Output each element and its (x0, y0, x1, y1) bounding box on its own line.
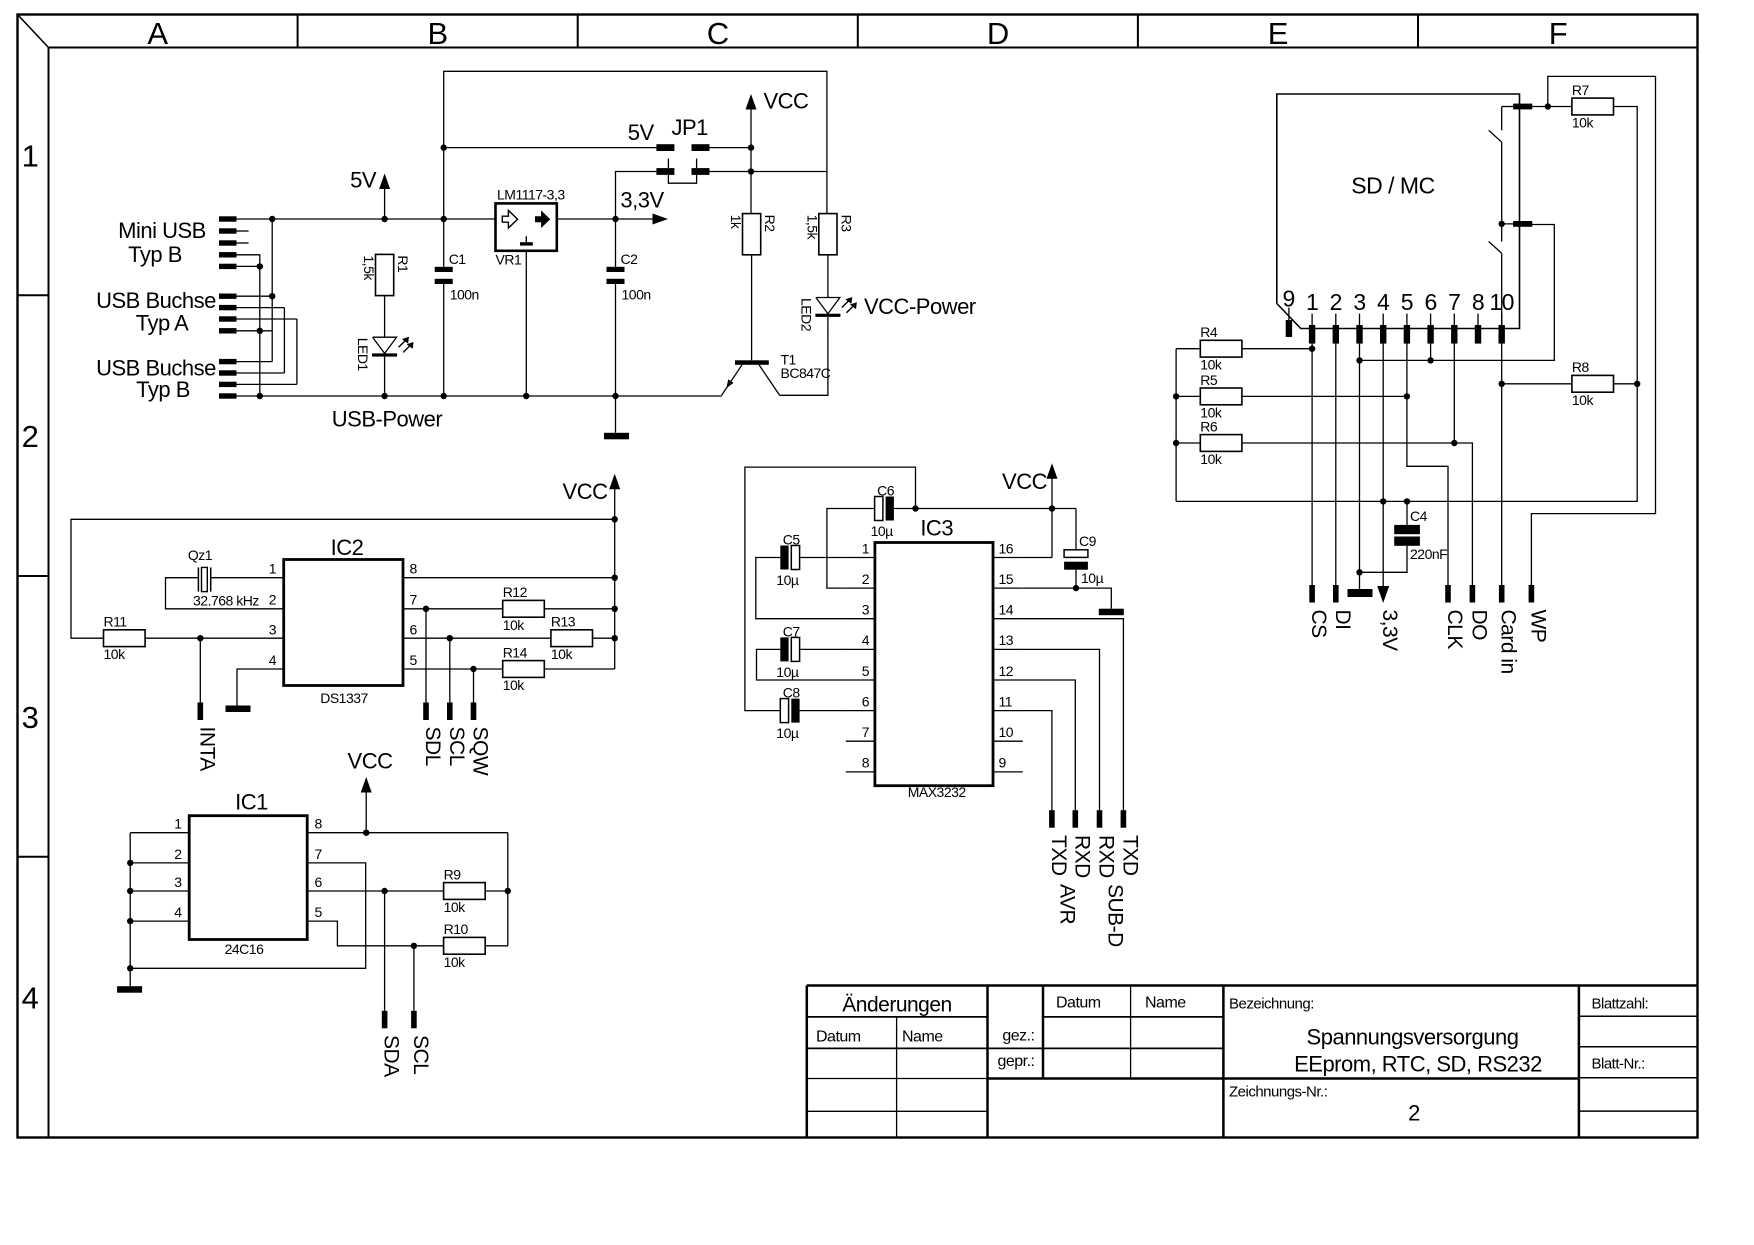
svg-text:100n: 100n (450, 286, 479, 302)
svg-text:Typ A: Typ A (136, 311, 189, 336)
wire IC2 pin4 to gnd (237, 669, 284, 706)
wire crystal to pin2 (166, 578, 284, 609)
wire R4-R6 left bus (1175, 349, 1177, 502)
VCC symbol IC2 (609, 474, 620, 490)
svg-text:R2: R2 (762, 215, 778, 233)
wire IC2 pin8 VCC (403, 577, 615, 579)
svg-text:Name: Name (902, 1029, 943, 1046)
wire SD pin3 gnd (1359, 344, 1361, 590)
wire R13 right (593, 637, 615, 639)
svg-text:5: 5 (862, 663, 870, 679)
svg-text:3: 3 (862, 602, 870, 618)
svg-text:VCC-Power: VCC-Power (864, 294, 976, 319)
wire gnd net pin6 (1360, 225, 1555, 361)
resistor R14 (503, 661, 545, 678)
resistor R5 (1200, 388, 1242, 405)
switch WP blade (1501, 107, 1503, 131)
svg-text:A: A (147, 16, 168, 51)
svg-text:6: 6 (1424, 289, 1436, 315)
svg-text:C2: C2 (621, 251, 639, 267)
svg-text:R7: R7 (1572, 82, 1590, 98)
wire R7 bypass WP (1531, 76, 1655, 585)
wire card-detect to pin10 (1501, 253, 1503, 585)
svg-text:AVR: AVR (1056, 884, 1079, 924)
svg-text:IC1: IC1 (235, 790, 268, 815)
svg-text:LED2: LED2 (798, 298, 814, 332)
svg-text:R11: R11 (104, 614, 128, 630)
net stub DO (1470, 585, 1476, 603)
svg-text:VCC: VCC (764, 89, 810, 114)
supply 5V arrow (379, 174, 390, 190)
wire pad1 to R7 (1532, 106, 1572, 108)
svg-text:7: 7 (1448, 289, 1460, 315)
svg-text:VCC: VCC (563, 479, 609, 504)
wire IC3 pin14 (1023, 619, 1124, 811)
svg-text:10k: 10k (551, 646, 574, 662)
svg-text:BC847C: BC847C (781, 365, 831, 381)
ground symbol SD (1348, 589, 1373, 597)
wire SD pin4 3,3V (1382, 344, 1384, 587)
svg-text:10k: 10k (1200, 451, 1223, 467)
wire R7 right down (1614, 107, 1638, 384)
wire JP1 bottom row (616, 172, 657, 220)
svg-text:C5: C5 (783, 532, 801, 548)
svg-text:C8: C8 (783, 685, 801, 701)
svg-text:Datum: Datum (816, 1029, 861, 1046)
capacitor C1 (435, 267, 453, 272)
svg-text:CS: CS (1307, 610, 1330, 639)
ground symbol IC1 (117, 986, 142, 993)
svg-text:1,5k: 1,5k (361, 255, 377, 281)
svg-text:10µ: 10µ (871, 523, 894, 539)
wire IC3 pin16 vcc (1023, 557, 1052, 559)
svg-text:USB-Power: USB-Power (332, 407, 443, 432)
wire IC1 pin6 (307, 890, 443, 892)
svg-text:Blatt-Nr.:: Blatt-Nr.: (1592, 1056, 1645, 1073)
svg-text:C4: C4 (1410, 508, 1428, 524)
svg-text:10k: 10k (444, 954, 467, 970)
switch CD pad2 (1513, 221, 1532, 227)
VCC symbol main (746, 94, 757, 110)
capacitor C6 wires (827, 509, 875, 589)
svg-text:INTA: INTA (195, 727, 218, 772)
resistor R8 row (1502, 383, 1572, 385)
svg-text:10µ: 10µ (776, 664, 799, 680)
wire R12 right (544, 608, 614, 610)
svg-text:RXD: RXD (1095, 835, 1118, 878)
wire VR1 output 3,3V rail (557, 218, 653, 220)
svg-text:1: 1 (862, 540, 870, 556)
transistor T1 BC847C (735, 360, 769, 365)
capacitor C8 (780, 699, 788, 723)
resistor R4 row (1176, 348, 1200, 350)
net arrow 3,3V (653, 214, 669, 225)
wire GND rail (237, 395, 722, 397)
svg-text:15: 15 (999, 571, 1014, 587)
svg-text:SCL: SCL (409, 1035, 432, 1074)
svg-text:LED1: LED1 (355, 338, 371, 372)
svg-text:10k: 10k (503, 617, 526, 633)
wire 3,3V rail SD (1176, 384, 1637, 502)
net stub Card in (1499, 585, 1505, 603)
wire SD pin1 CS (1311, 344, 1313, 586)
capacitor C8 wires (800, 710, 846, 712)
resistor R12 (503, 600, 545, 617)
wire IC2 pin5 (403, 668, 503, 670)
wire IC2 pin1 to crystal (211, 577, 284, 579)
svg-text:2: 2 (862, 571, 870, 587)
IC IC3 MAX3232 box (875, 543, 993, 786)
IC3 left stubs (846, 557, 875, 559)
wire IC3 pin13 (1023, 649, 1100, 810)
svg-text:D: D (987, 16, 1009, 51)
net stub SDL (425, 609, 427, 703)
wire C1 top (443, 219, 445, 267)
svg-text:14: 14 (999, 602, 1014, 618)
IC U2 DS1337 box (284, 560, 403, 686)
resistor R6 (1200, 435, 1242, 452)
wire SD pin5 CLK (1407, 344, 1448, 586)
svg-text:10µ: 10µ (776, 725, 799, 741)
svg-text:4: 4 (1377, 289, 1390, 315)
IC IC1 24C16 box (189, 816, 307, 940)
SD card pads (1288, 308, 1290, 321)
svg-text:1: 1 (174, 816, 182, 832)
wire C2 bottom (615, 284, 617, 396)
svg-text:1,5k: 1,5k (805, 215, 821, 241)
svg-text:DS1337: DS1337 (320, 690, 368, 706)
svg-text:Qz1: Qz1 (188, 547, 213, 563)
svg-text:gepr.:: gepr.: (997, 1053, 1034, 1070)
net stub RXD SUB-D (1097, 810, 1103, 828)
svg-text:1: 1 (269, 561, 277, 577)
switch WP pad1 (1513, 104, 1532, 110)
svg-text:Blattzahl:: Blattzahl: (1592, 996, 1649, 1013)
wire VCC left rail to R11 (71, 519, 615, 638)
svg-text:SQW: SQW (469, 727, 492, 776)
wire VR1 gnd pin (525, 251, 527, 396)
junction dots usb bus x1 (257, 263, 263, 269)
svg-text:Mini USB: Mini USB (118, 218, 206, 243)
wire R9 right (485, 890, 508, 892)
wire 5V rail (237, 218, 496, 220)
svg-text:VCC: VCC (1002, 469, 1048, 494)
svg-text:1: 1 (1306, 289, 1318, 315)
crystal Qz1 32.768 kHz (197, 567, 199, 591)
svg-text:100n: 100n (622, 286, 651, 302)
svg-text:Zeichnungs-Nr.:: Zeichnungs-Nr.: (1229, 1084, 1327, 1101)
svg-text:R8: R8 (1572, 359, 1590, 375)
wire usb bus x4 (237, 318, 297, 320)
svg-text:Card in: Card in (1497, 610, 1520, 674)
net stub SQW (473, 669, 475, 703)
svg-text:3,3V: 3,3V (620, 188, 664, 213)
svg-text:SCL: SCL (445, 727, 468, 766)
wire usb bus x1 (237, 255, 260, 267)
svg-text:6: 6 (315, 874, 323, 890)
VCC symbol IC1 (361, 777, 372, 793)
svg-text:10k: 10k (444, 899, 467, 915)
wire usb bus x2 (271, 219, 273, 362)
net stub RXD (1073, 810, 1079, 828)
svg-text:13: 13 (999, 632, 1014, 648)
svg-text:R4: R4 (1200, 324, 1218, 340)
svg-text:10k: 10k (1200, 357, 1223, 373)
capacitor C9 (1075, 509, 1077, 550)
svg-text:5: 5 (410, 652, 418, 668)
svg-text:5: 5 (1401, 289, 1413, 315)
resistor R8 (1572, 375, 1614, 392)
connector USB Buchse Typ A (219, 294, 237, 299)
svg-text:gez.:: gez.: (1002, 1028, 1034, 1045)
svg-text:R3: R3 (839, 215, 855, 233)
VCC symbol IC3 (1047, 463, 1058, 479)
svg-text:5V: 5V (350, 168, 377, 193)
svg-text:5: 5 (315, 904, 323, 920)
net stub INTA (199, 638, 201, 702)
svg-text:C7: C7 (783, 623, 801, 639)
svg-text:11: 11 (999, 693, 1013, 709)
svg-text:32.768 kHz: 32.768 kHz (193, 593, 259, 609)
svg-text:4: 4 (269, 652, 277, 668)
wire 5V up-link (444, 71, 827, 219)
svg-text:4: 4 (22, 981, 39, 1016)
svg-text:R6: R6 (1200, 418, 1218, 434)
wire usb bus x3 (237, 307, 285, 309)
svg-text:2: 2 (1408, 1101, 1420, 1126)
resistor R5 row (1176, 395, 1200, 397)
svg-text:4: 4 (174, 904, 182, 920)
svg-text:3: 3 (1353, 289, 1365, 315)
svg-text:SDA: SDA (380, 1035, 403, 1077)
wire SD pin2 DI (1335, 344, 1337, 586)
wire R3 chain (827, 255, 829, 297)
svg-text:DI: DI (1331, 610, 1354, 630)
svg-text:R12: R12 (503, 584, 528, 600)
svg-text:R10: R10 (444, 921, 469, 937)
ground symbol below C2 (615, 396, 617, 433)
wire R10 right (485, 945, 508, 947)
svg-text:1: 1 (22, 138, 39, 173)
svg-text:VR1: VR1 (496, 252, 522, 268)
svg-text:10k: 10k (104, 646, 127, 662)
svg-text:TXD: TXD (1047, 835, 1070, 876)
svg-text:8: 8 (410, 561, 418, 577)
wire JP1 top row (444, 147, 657, 149)
svg-text:USB Buchse: USB Buchse (96, 288, 216, 313)
svg-text:R9: R9 (444, 866, 462, 882)
capacitor C2 (607, 267, 625, 272)
svg-text:10µ: 10µ (1081, 570, 1104, 586)
svg-text:IC2: IC2 (331, 535, 364, 560)
resistor R11 (104, 630, 146, 647)
capacitor C4 220nF (1406, 501, 1408, 525)
net stub TXD (1121, 810, 1127, 828)
svg-text:CLK: CLK (1443, 610, 1466, 650)
svg-text:SUB-D: SUB-D (1104, 884, 1127, 947)
svg-text:E: E (1268, 16, 1288, 51)
title block frame (806, 986, 809, 1138)
wire SD pin7 DO (1453, 344, 1455, 444)
resistor R3 (819, 214, 837, 255)
wire C9 to pin15 (1075, 570, 1077, 588)
wire IC2 pin7 (403, 608, 503, 610)
wire C2 top (615, 219, 617, 267)
svg-text:Bezeichnung:: Bezeichnung: (1229, 996, 1314, 1013)
capacitor C7 wires (800, 648, 846, 650)
wire IC1 left bus (130, 832, 189, 834)
SD/MC card connector outline (1277, 94, 1520, 329)
resistor R2 (743, 214, 761, 255)
wire LED1 to GND rail (384, 357, 386, 396)
svg-text:4: 4 (862, 632, 870, 648)
svg-text:3: 3 (174, 874, 182, 890)
svg-text:SDL: SDL (421, 727, 444, 766)
svg-text:2: 2 (174, 846, 182, 862)
svg-text:7: 7 (410, 592, 418, 608)
svg-text:1k: 1k (728, 215, 744, 230)
wire IC2 pin3 R11 (146, 637, 284, 639)
svg-text:Spannungsversorgung: Spannungsversorgung (1307, 1025, 1519, 1050)
svg-text:2: 2 (1330, 289, 1342, 315)
net stub SCL (413, 946, 415, 1011)
wire R14 right (544, 668, 614, 670)
svg-text:10k: 10k (1572, 392, 1595, 408)
resistor R1 (376, 254, 394, 295)
svg-text:3: 3 (22, 700, 39, 735)
svg-text:R1: R1 (395, 255, 411, 273)
resistor R13 (551, 630, 593, 647)
capacitor C6 (875, 497, 883, 521)
resistor R4 (1200, 340, 1242, 357)
svg-text:C9: C9 (1079, 533, 1097, 549)
net stub CLK (1445, 585, 1451, 603)
wire T1 collector to LED2 (780, 334, 828, 396)
wire C1 bottom (443, 284, 445, 396)
net stub WP (1529, 585, 1535, 603)
resistor R7 (1572, 98, 1614, 115)
svg-text:10k: 10k (1572, 115, 1595, 131)
wire IC1 pin8 VCC (307, 832, 508, 834)
IC3 right stubs (993, 557, 1023, 559)
svg-text:C1: C1 (449, 251, 467, 267)
svg-text:10: 10 (999, 724, 1014, 740)
net stub DI (1333, 585, 1339, 603)
svg-text:Typ B: Typ B (128, 242, 182, 267)
resistor R6 row (1176, 442, 1200, 444)
wire IC3 pin12 (1023, 680, 1076, 810)
wire R2 to T1 base (751, 255, 753, 360)
net stub CS (1309, 585, 1315, 603)
svg-text:Name: Name (1145, 995, 1186, 1012)
junction dots usb bus x2 (269, 216, 275, 222)
svg-text:9: 9 (999, 755, 1007, 771)
svg-text:10µ: 10µ (776, 572, 799, 588)
svg-text:7: 7 (315, 846, 323, 862)
supply arrow 3,3V down (1377, 586, 1389, 603)
svg-text:IC3: IC3 (920, 516, 953, 541)
svg-text:24C16: 24C16 (225, 941, 264, 957)
svg-text:10k: 10k (503, 677, 526, 693)
svg-text:DO: DO (1467, 610, 1490, 641)
svg-text:WP: WP (1526, 610, 1549, 643)
svg-text:8: 8 (1472, 289, 1484, 315)
svg-text:6: 6 (410, 622, 418, 638)
svg-text:5V: 5V (628, 120, 655, 145)
connector USB Buchse Typ B (219, 359, 237, 364)
resistor R10 (444, 937, 486, 954)
svg-text:2: 2 (22, 419, 39, 454)
svg-text:TXD: TXD (1118, 835, 1141, 876)
svg-text:16: 16 (999, 540, 1014, 556)
svg-text:Datum: Datum (1056, 995, 1101, 1012)
svg-text:8: 8 (862, 755, 870, 771)
svg-text:6: 6 (862, 693, 870, 709)
wire C4 bottom (1360, 546, 1408, 573)
connector Mini USB Typ B (219, 216, 237, 221)
wire T1 emitter to GND rail (721, 395, 723, 397)
svg-text:SD / MC: SD / MC (1351, 173, 1434, 199)
svg-text:220nF: 220nF (1410, 546, 1447, 562)
wire usb nc stubs (237, 230, 249, 232)
svg-text:2: 2 (269, 592, 277, 608)
svg-text:B: B (428, 16, 448, 51)
svg-text:12: 12 (999, 663, 1014, 679)
svg-text:R14: R14 (503, 644, 528, 660)
wire IC3 pin11 (1023, 711, 1052, 811)
voltage regulator VR1 LM1117-3,3 (496, 203, 557, 250)
wire IC3 pin15 gnd (1023, 588, 1112, 609)
svg-text:3: 3 (269, 622, 277, 638)
svg-text:Typ B: Typ B (136, 377, 190, 402)
capacitor C5 (780, 546, 788, 570)
switch CD blade (1501, 224, 1503, 242)
ground symbol IC3 pin15 (1099, 609, 1124, 616)
wire R1 to LED1 (384, 296, 386, 337)
wire IC2 pin6 (403, 637, 551, 639)
svg-text:F: F (1549, 16, 1567, 51)
wire IC1 pin5 (307, 921, 443, 946)
net stub SDA (384, 891, 386, 1011)
capacitor C5 wires (800, 557, 846, 559)
svg-text:Änderungen: Änderungen (842, 994, 951, 1017)
svg-text:3,3V: 3,3V (1378, 610, 1401, 652)
LED LED1 (373, 337, 397, 353)
svg-text:C6: C6 (877, 483, 895, 499)
net stub SCL (449, 638, 451, 702)
svg-text:LM1117-3,3: LM1117-3,3 (497, 187, 565, 203)
svg-text:C: C (707, 16, 729, 51)
LED LED2 (816, 298, 840, 314)
svg-text:VCC: VCC (348, 749, 394, 774)
ground symbol IC2 pin4 (226, 706, 251, 713)
svg-text:MAX3232: MAX3232 (908, 784, 967, 800)
svg-text:R13: R13 (551, 614, 576, 630)
svg-text:EEprom, RTC, SD, RS232: EEprom, RTC, SD, RS232 (1294, 1052, 1542, 1077)
svg-text:R5: R5 (1200, 372, 1218, 388)
svg-text:8: 8 (315, 816, 323, 832)
wire IC1 pin7 loop (130, 863, 366, 968)
capacitor C7 (780, 637, 788, 661)
svg-text:RXD: RXD (1070, 835, 1093, 878)
resistor R9 (444, 883, 486, 900)
svg-text:7: 7 (862, 724, 870, 740)
svg-text:JP1: JP1 (671, 115, 708, 140)
net stub TXD AVR (1049, 810, 1055, 828)
